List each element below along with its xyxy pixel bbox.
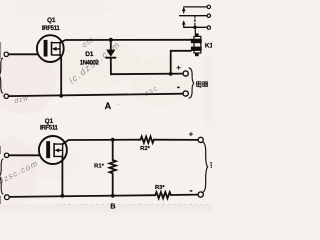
resistor R2 [140,139,141,141]
junction source/bottom wire A [59,94,63,98]
input terminal B top [4,153,8,157]
clipped label right edge [210,162,212,168]
coil bottom wire [171,51,191,74]
scan edge artifacts [0,42,1,204]
plus terminal B [198,137,203,142]
op: transistor Q1 (A) body circle [37,35,64,62]
plus supply wire A [111,73,183,76]
Q1 A drain inner lead [52,42,60,44]
svg-text:A: A [105,101,112,111]
svg-text:R1*: R1* [94,163,104,169]
junction R1 bottom [111,194,115,198]
input brace A [0,58,3,93]
input terminal A top [4,52,8,56]
minus terminal A [183,91,188,96]
linkage to coil [194,27,196,34]
source wire B [61,157,63,196]
svg-text:IRF511: IRF511 [42,26,61,32]
gate lead inside Q1 A [39,53,44,56]
junction drain/D1 [109,38,113,42]
label power CJK (drawn) [196,81,207,87]
resistor R3 [155,192,171,198]
Q1 A source inner lead [52,54,60,56]
svg-text:-: - [190,185,193,195]
Q1 B drain inner lead [55,143,63,145]
relay coil K1 [191,33,202,56]
input terminal B bottom [5,195,10,200]
minus terminal B [198,192,203,197]
output brace B [203,142,208,192]
drain wire A [60,40,191,43]
gate wire A [9,53,39,55]
gate lead inside Q1 B [39,154,46,156]
relay bottom armature arrow [183,23,185,28]
input brace B [0,159,3,194]
svg-text:1N4002: 1N4002 [80,61,100,67]
relay K1 contact mid fixed [207,14,210,17]
svg-text:D1: D1 [85,51,94,58]
svg-text:K1: K1 [205,42,212,49]
brace power A [189,68,194,98]
diode D1 [110,40,112,50]
junction linkage [193,26,196,29]
wire R3 to minus terminal B [171,194,198,196]
svg-text:+: + [189,130,194,139]
scan noise specks [70,104,203,206]
junction R1 top [111,138,115,142]
red watermark text diagonal 1 [67,39,122,85]
source wire A [60,55,61,96]
relay top contact line [184,6,207,8]
Q1 A body arrow [54,48,61,50]
svg-text:IRF511: IRF511 [40,126,59,132]
relay K1 contact bottom fixed [207,26,210,29]
junction source/bottom wire B [61,194,65,198]
svg-text:Q1: Q1 [45,118,54,125]
red watermark text diagonal 2 [0,159,40,186]
relay linkage dashed [194,16,196,28]
resistor R1 [112,140,114,160]
bottom scan noise dashes [58,204,212,206]
relay K1 contact top fixed [207,5,210,8]
svg-text:Q1: Q1 [47,17,56,24]
plus terminal A [183,71,188,76]
junction coil drop / plus wire [169,72,173,76]
relay common line [180,15,207,17]
paper background [0,0,212,212]
gate wire B [9,154,40,156]
red watermark text diagonal 3 [142,83,160,98]
Q1 A gate bar [44,40,48,57]
svg-text:+: + [176,63,181,72]
bottom wire B left [9,195,155,197]
relay bottom contact line [184,26,207,28]
red watermark fragment under wire A [14,95,30,105]
svg-text:B: B [110,202,115,211]
Q1 B channel bar [53,143,55,157]
Q1 B body arrow [56,149,63,151]
svg-text:R3*: R3* [155,185,165,191]
red watermark curl near top wire [80,35,96,50]
Q1 B right bar [62,144,64,157]
transistor Q1 (B) body circle [39,136,67,164]
Q1 A right bar [59,42,61,55]
wire R2 to plus terminal B [154,139,198,141]
Q1 B gate bar [46,141,50,158]
Q1 B source inner lead [55,155,63,157]
input terminal A bottom [4,94,8,98]
Q1 A channel bar [51,42,53,56]
bottom wire A [9,94,184,96]
svg-text:-: - [177,82,180,92]
svg-text:R2*: R2* [140,146,150,152]
relay top armature arrow [183,9,185,13]
drain wire B [63,140,140,144]
